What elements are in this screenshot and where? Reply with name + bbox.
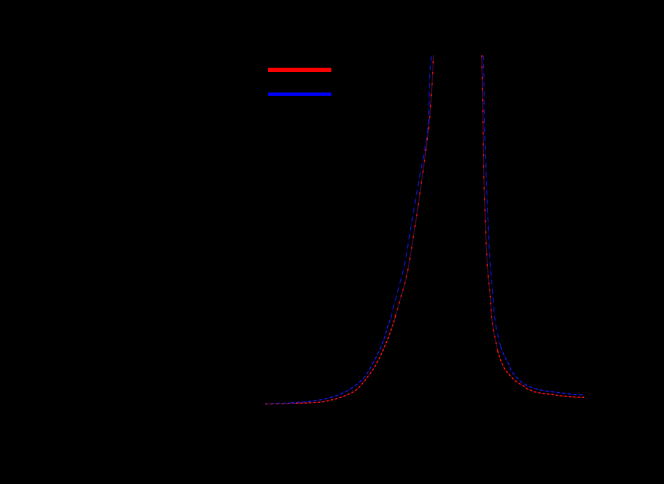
curve blue left steep dashes <box>391 55 432 318</box>
curve red right wing underlay <box>498 351 585 397</box>
curve blue left wing underlay <box>291 318 391 403</box>
legend line blue (lower swatch) <box>268 93 331 96</box>
curve red right steep underlay <box>488 276 498 351</box>
curve red left steep underlay <box>396 271 408 317</box>
curve red left vertical dashes <box>408 55 434 270</box>
curve red left vertical underlay <box>408 55 434 270</box>
curve red left tail dashes <box>265 403 310 404</box>
legend line red (upper swatch) <box>268 68 331 72</box>
curve merged tail underlay (purple) <box>265 403 310 404</box>
curve red right wing dashes <box>498 351 585 397</box>
curve blue left wing dashes <box>291 318 391 403</box>
curve red left steep dashes <box>396 271 408 317</box>
curve blue right wing dashes <box>501 347 584 395</box>
curve red right vertical dashes <box>482 55 489 276</box>
curve red left wing underlay <box>296 316 396 403</box>
curve blue right steep dashes <box>483 55 501 347</box>
curve red right steep dashes <box>488 276 498 351</box>
curve blue right wing underlay <box>501 347 584 395</box>
curve blue left steep underlay <box>391 55 432 318</box>
curve red left wing dashes <box>296 316 396 403</box>
curve blue left tail dashes <box>265 402 304 404</box>
curve blue right steep underlay <box>483 55 501 347</box>
curve red right vertical underlay <box>482 55 489 276</box>
